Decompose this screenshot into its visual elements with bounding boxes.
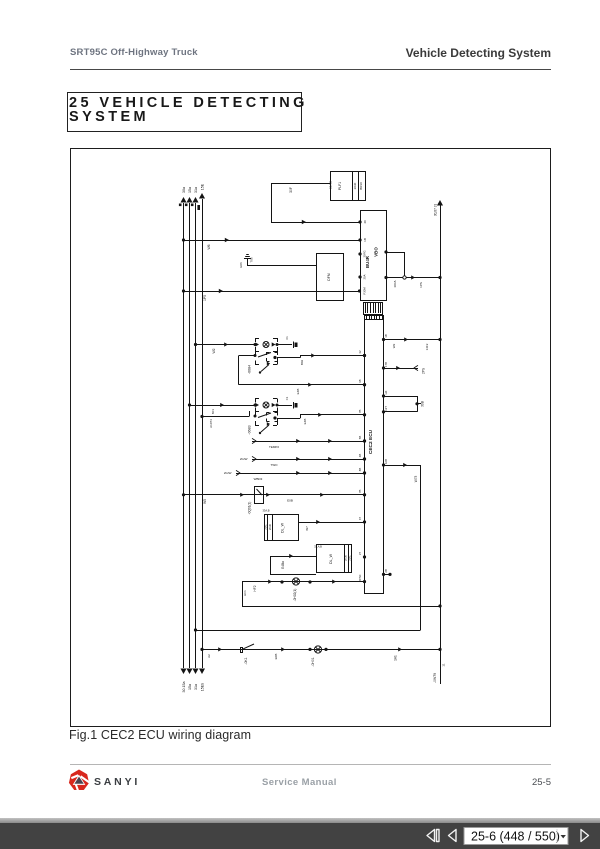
svg-text:2PS0: 2PS0 (358, 574, 362, 581)
svg-text:30F: 30F (289, 187, 293, 193)
svg-text:30A: 30A (363, 274, 367, 279)
svg-text:W6: W6 (207, 244, 211, 249)
svg-text:X1: X1 (285, 336, 289, 340)
svg-text:-0Q01(1): -0Q01(1) (248, 502, 252, 515)
svg-text:A1074: A1074 (209, 419, 213, 428)
svg-text:1A1: 1A1 (394, 655, 398, 661)
svg-text:PLF1: PLF1 (338, 182, 342, 190)
svg-text:8F1: 8F1 (211, 409, 215, 415)
svg-text:30,87 J1: 30,87 J1 (434, 204, 438, 216)
svg-text:2PS: 2PS (422, 368, 426, 374)
svg-text:P30M: P30M (363, 287, 367, 295)
svg-text:1B: 1B (384, 334, 388, 338)
svg-text:-0K1: -0K1 (244, 657, 248, 664)
svg-text:16B: 16B (384, 459, 388, 464)
svg-text:14F2: 14F2 (425, 343, 429, 350)
svg-text:33,A,B: 33,A,B (314, 545, 322, 549)
svg-text:CEC2 ECU: CEC2 ECU (368, 429, 374, 454)
svg-text:15E: 15E (200, 183, 204, 190)
svg-text:15Eb: 15Eb (200, 683, 204, 691)
svg-text:6B: 6B (358, 454, 362, 458)
svg-text:BR30: BR30 (359, 182, 363, 190)
svg-text:-0W79: -0W79 (433, 673, 437, 683)
svg-text:X1: X1 (285, 396, 289, 400)
svg-text:15a: 15a (188, 684, 192, 690)
svg-text:11: 11 (442, 663, 446, 666)
svg-text:E4Ba: E4Ba (281, 561, 285, 569)
svg-text:W5: W5 (203, 499, 207, 504)
svg-text:7B: 7B (358, 489, 362, 493)
svg-text:HZ: HZ (384, 390, 388, 394)
svg-text:W7: W7 (305, 526, 309, 531)
svg-text:DL_W: DL_W (281, 522, 285, 533)
svg-text:DFM: DFM (327, 273, 331, 281)
svg-text:T06: T06 (250, 257, 254, 263)
svg-text:1PS: 1PS (419, 282, 423, 288)
svg-text:1P5: 1P5 (203, 295, 207, 301)
svg-text:E0B: E0B (287, 499, 293, 503)
svg-text:30CA: 30CA (393, 280, 397, 287)
svg-text:HF1: HF1 (243, 590, 247, 596)
svg-text:W73: W73 (414, 476, 418, 483)
svg-text:2B: 2B (384, 569, 388, 573)
svg-text:W2: W2 (212, 348, 216, 353)
svg-text:-0H01: -0H01 (311, 657, 315, 666)
svg-text:31a: 31a (194, 187, 198, 193)
svg-text:30.15a: 30.15a (182, 682, 186, 693)
svg-text:8B: 8B (358, 468, 362, 472)
svg-text:1B: 1B (363, 238, 367, 242)
svg-text:E0B: E0B (274, 654, 278, 660)
svg-text:30a: 30a (182, 187, 186, 193)
svg-text:2030: 2030 (353, 182, 357, 189)
svg-text:DL_W: DL_W (329, 553, 333, 564)
svg-text:B02: B02 (300, 360, 304, 366)
svg-text:WBD3: WBD3 (254, 477, 263, 481)
svg-text:3DC: 3DC (347, 555, 351, 561)
svg-text:40: 40 (363, 220, 367, 224)
svg-text:-0H02(1): -0H02(1) (293, 589, 297, 602)
svg-text:33A,B: 33A,B (262, 509, 269, 513)
svg-text:6T: 6T (358, 517, 362, 521)
svg-text:7B: 7B (358, 409, 362, 413)
svg-text:3T: 3T (358, 552, 362, 556)
svg-text:30FG: 30FG (363, 251, 367, 258)
svg-text:TEMP2: TEMP2 (269, 445, 279, 449)
svg-text:E06: E06 (239, 262, 243, 268)
svg-text:25-6 (448 / 550): 25-6 (448 / 550) (471, 829, 560, 843)
svg-text:5B: 5B (358, 436, 362, 440)
svg-text:15a: 15a (188, 187, 192, 193)
svg-text:HF2: HF2 (253, 585, 257, 591)
svg-text:-0683: -0683 (248, 425, 252, 434)
svg-text:VBO: VBO (374, 247, 379, 257)
svg-text:2G/W: 2G/W (224, 471, 232, 475)
svg-text:-0684: -0684 (248, 365, 252, 374)
svg-text:30A,B: 30A,B (329, 181, 333, 189)
svg-text:2G/W: 2G/W (240, 457, 248, 461)
svg-text:17B: 17B (384, 362, 388, 367)
svg-text:13T: 13T (384, 406, 388, 411)
svg-text:A2: A2 (207, 654, 211, 658)
svg-text:31a: 31a (194, 684, 198, 690)
svg-text:30B: 30B (421, 401, 425, 407)
svg-text:1B: 1B (358, 379, 362, 383)
svg-text:E4B: E4B (303, 419, 307, 425)
svg-text:32: 32 (358, 350, 362, 354)
svg-text:W2: W2 (392, 343, 396, 348)
svg-text:2030: 2030 (268, 523, 272, 530)
svg-text:TWO: TWO (271, 463, 279, 467)
svg-text:E4B: E4B (296, 389, 300, 395)
